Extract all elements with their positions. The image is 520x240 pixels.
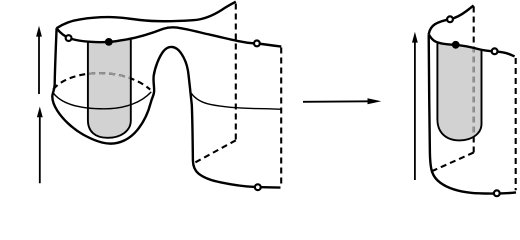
top back rim (right figure) <box>429 5 474 34</box>
top back rim <box>57 2 236 29</box>
dashed back edge (gray inside band) <box>473 7 475 153</box>
dashed back-right edge <box>515 58 517 190</box>
dashed back bottom diagonal <box>194 140 236 163</box>
filled dot (right figure) <box>452 41 460 49</box>
shaded band outline (left) <box>88 39 131 138</box>
open circle bottom <box>255 184 261 190</box>
thin waist line <box>191 93 282 109</box>
open circle top right <box>254 41 260 47</box>
thin front arc of cup ellipse <box>53 92 151 109</box>
dashed back-right edge <box>280 48 282 188</box>
open circle on rim (right figure) <box>492 48 498 54</box>
right vertical arrow <box>414 41 416 180</box>
open circle bottom (right figure) <box>494 190 500 196</box>
silhouette + bottom rim <box>429 34 516 193</box>
dashed back edge (black) <box>473 7 475 153</box>
shaded band outline (right) <box>437 43 481 140</box>
top front rim <box>57 27 282 46</box>
dashed back arc of cup (gray, inside band) <box>53 73 150 90</box>
dashed bottom diagonal <box>432 153 474 172</box>
filled dot on top rim <box>105 38 113 46</box>
shaded band fill (left) <box>88 39 131 138</box>
open circle on top rim left <box>66 35 72 41</box>
dashed back arc of cup (black, outside band) <box>53 73 150 90</box>
top front rim (right figure) <box>429 34 515 56</box>
upper left arrow <box>38 35 40 95</box>
main outline: wall, cup, finger, right wall, bottom rim <box>52 28 280 187</box>
dashed back-left edge of right cylinder part <box>235 4 237 141</box>
shaded band fill (right) <box>437 43 481 140</box>
lower left arrow <box>39 116 41 184</box>
open circle top-left (right figure) <box>447 16 453 22</box>
